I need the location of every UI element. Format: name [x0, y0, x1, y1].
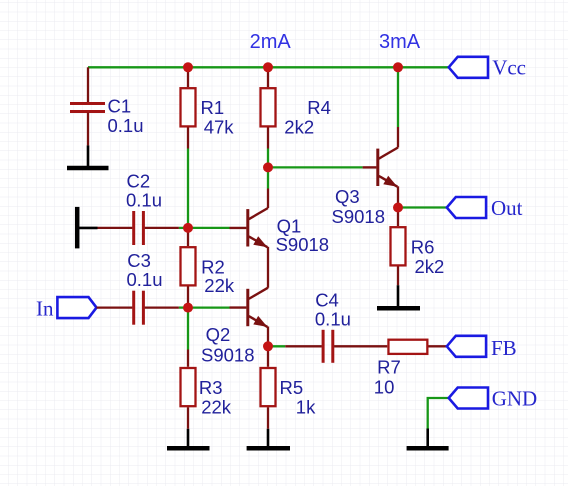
capacitor C1 [70, 67, 105, 145]
wire node B2 to Q2 base [188, 306, 230, 308]
svg-text:R3: R3 [199, 377, 223, 398]
svg-text:Q2: Q2 [206, 324, 231, 345]
label Q3 [335, 186, 360, 207]
wire R1 to node B1 [187, 149, 189, 228]
junction dot node B2 [183, 303, 193, 313]
value S9018 (Q1) [276, 234, 330, 255]
svg-text:10: 10 [374, 377, 395, 398]
label R2 [201, 256, 225, 277]
svg-text:R4: R4 [307, 97, 331, 118]
label R6 [411, 236, 435, 257]
value 0.1u (C1) [108, 115, 144, 136]
label C1 [108, 96, 132, 117]
resistor R1 [181, 67, 196, 148]
label R1 [201, 97, 225, 118]
svg-text:Q3: Q3 [335, 186, 360, 207]
terminal FB [447, 336, 517, 360]
value 0.1u (C4) [315, 309, 351, 330]
svg-text:R6: R6 [411, 236, 435, 257]
junction dot node E [393, 203, 403, 213]
svg-text:Out: Out [491, 196, 523, 220]
svg-text:FB: FB [491, 336, 517, 360]
value 22k (R2) [204, 275, 235, 296]
svg-text:2k2: 2k2 [284, 117, 314, 138]
junction dot node B1 [183, 223, 193, 233]
ground R6 [377, 285, 420, 308]
value 0.1u (C2) [126, 190, 162, 211]
svg-text:R7: R7 [377, 357, 401, 378]
wire R4 to node C [267, 149, 269, 168]
wire C2 to node B1 [179, 227, 188, 229]
svg-text:3mA: 3mA [379, 31, 421, 53]
label Q1 [277, 215, 302, 236]
svg-text:47k: 47k [204, 117, 235, 138]
junction dot node C [263, 162, 273, 172]
junction dot rail/R4 [263, 62, 273, 72]
terminal Vcc [449, 56, 526, 80]
svg-text:22k: 22k [204, 275, 235, 296]
label C3 [127, 250, 151, 271]
value 2k2 (R6) [415, 256, 445, 277]
wire node B1 to Q1 base [188, 227, 230, 229]
wire node E to Out [398, 206, 447, 208]
svg-text:2mA: 2mA [250, 31, 292, 53]
label Q2 [206, 324, 231, 345]
svg-text:22k: 22k [201, 396, 232, 417]
capacitor C2 [98, 211, 179, 245]
svg-text:C2: C2 [127, 171, 151, 192]
value 47k [204, 117, 235, 138]
junction dot node D [263, 341, 273, 351]
svg-text:C3: C3 [127, 250, 151, 271]
probe label 2mA [250, 31, 292, 53]
capacitor C4 [285, 330, 387, 363]
wire GND terminal [428, 398, 449, 429]
value 1k (R5) [296, 396, 316, 417]
svg-text:0.1u: 0.1u [127, 269, 163, 290]
value 2k2 (R4) [284, 117, 314, 138]
resistor R5 [261, 346, 276, 429]
svg-text:S9018: S9018 [332, 206, 386, 227]
wire node C to Q3 base [268, 166, 363, 168]
wire node C to Q1 collector [267, 167, 269, 188]
wire Vcc rail [88, 66, 449, 68]
junction dot rail/R1 [183, 62, 193, 72]
wire C3 to node B2 [179, 306, 188, 308]
svg-text:2k2: 2k2 [415, 256, 445, 277]
svg-text:0.1u: 0.1u [108, 115, 144, 136]
svg-text:C1: C1 [108, 96, 132, 117]
resistor R7 [388, 340, 447, 354]
value 10 (R7) [374, 377, 395, 398]
junction dot rail/Q3 [393, 62, 403, 72]
value 0.1u (C3) [127, 269, 163, 290]
label R7 [377, 357, 401, 378]
wire node D to C4 [268, 345, 285, 347]
label R3 [199, 377, 223, 398]
terminal In [36, 297, 97, 321]
label C4 [315, 290, 339, 311]
transistor Q1 [230, 189, 269, 288]
ground GND terminal [407, 429, 449, 449]
terminal Out [447, 196, 523, 220]
resistor R6 [391, 208, 406, 286]
svg-text:R5: R5 [280, 377, 304, 398]
ground C2 (rotated) [77, 207, 97, 249]
svg-text:Vcc: Vcc [492, 56, 526, 80]
resistor R4 [261, 67, 276, 148]
ground R3 [167, 429, 210, 448]
svg-text:0.1u: 0.1u [315, 309, 351, 330]
svg-text:1k: 1k [296, 396, 316, 417]
ground R5 [247, 429, 290, 448]
value 22k (R3) [201, 396, 232, 417]
label C2 [127, 171, 151, 192]
value S9018 (Q2) [201, 345, 255, 366]
label R5 [280, 377, 304, 398]
svg-text:S9018: S9018 [201, 345, 255, 366]
svg-text:C4: C4 [315, 290, 339, 311]
transistor Q2 [230, 288, 269, 347]
svg-text:0.1u: 0.1u [126, 190, 162, 211]
probe label 3mA [379, 31, 421, 53]
wire rail to Q3 collector [397, 67, 399, 127]
resistor R2 [181, 228, 196, 308]
svg-text:GND: GND [492, 387, 538, 411]
value S9018 (Q3) [332, 206, 386, 227]
svg-text:R1: R1 [201, 97, 225, 118]
ground C1 [67, 145, 109, 168]
wire node B2 to R3 [187, 308, 189, 350]
capacitor C3 [97, 291, 179, 325]
resistor R3 [181, 350, 196, 429]
svg-text:S9018: S9018 [276, 234, 330, 255]
svg-text:In: In [36, 297, 54, 321]
transistor Q3 [363, 127, 398, 208]
label R4 [307, 97, 331, 118]
terminal GND [449, 387, 538, 411]
